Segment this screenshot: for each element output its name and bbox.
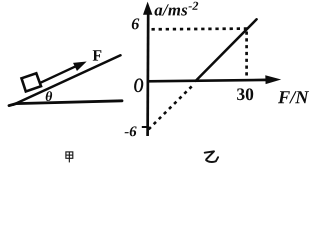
x-axis (F axis) xyxy=(148,80,267,81)
label theta (angle) xyxy=(46,91,52,101)
axis label F/N xyxy=(278,91,309,103)
force F arrow shaft xyxy=(40,66,77,83)
incline base line xyxy=(9,101,122,106)
label F (force) xyxy=(93,50,102,60)
label yi (figure 2) drawn glyph xyxy=(205,151,218,162)
origin O xyxy=(134,78,143,92)
block on incline xyxy=(22,73,42,91)
y value -6 xyxy=(125,126,137,136)
y value 6 xyxy=(132,18,140,29)
x-axis arrowhead xyxy=(265,75,281,84)
tick at a=-6 xyxy=(142,126,148,128)
axis label a/ms^-2 xyxy=(155,2,199,16)
label jia (figure 1) drawn glyph xyxy=(66,152,73,163)
dashed vertical line at F=30 xyxy=(245,32,248,79)
force F arrowhead xyxy=(74,62,86,70)
a-F graph solid line xyxy=(196,19,257,81)
y-axis arrowhead xyxy=(143,2,152,15)
x value 30 xyxy=(237,88,253,100)
dashed diagonal line to a=-6 xyxy=(149,84,194,129)
y-axis (a axis) xyxy=(146,13,149,136)
incline surface line xyxy=(14,55,121,104)
dashed horizontal line at a=6 xyxy=(152,27,249,30)
